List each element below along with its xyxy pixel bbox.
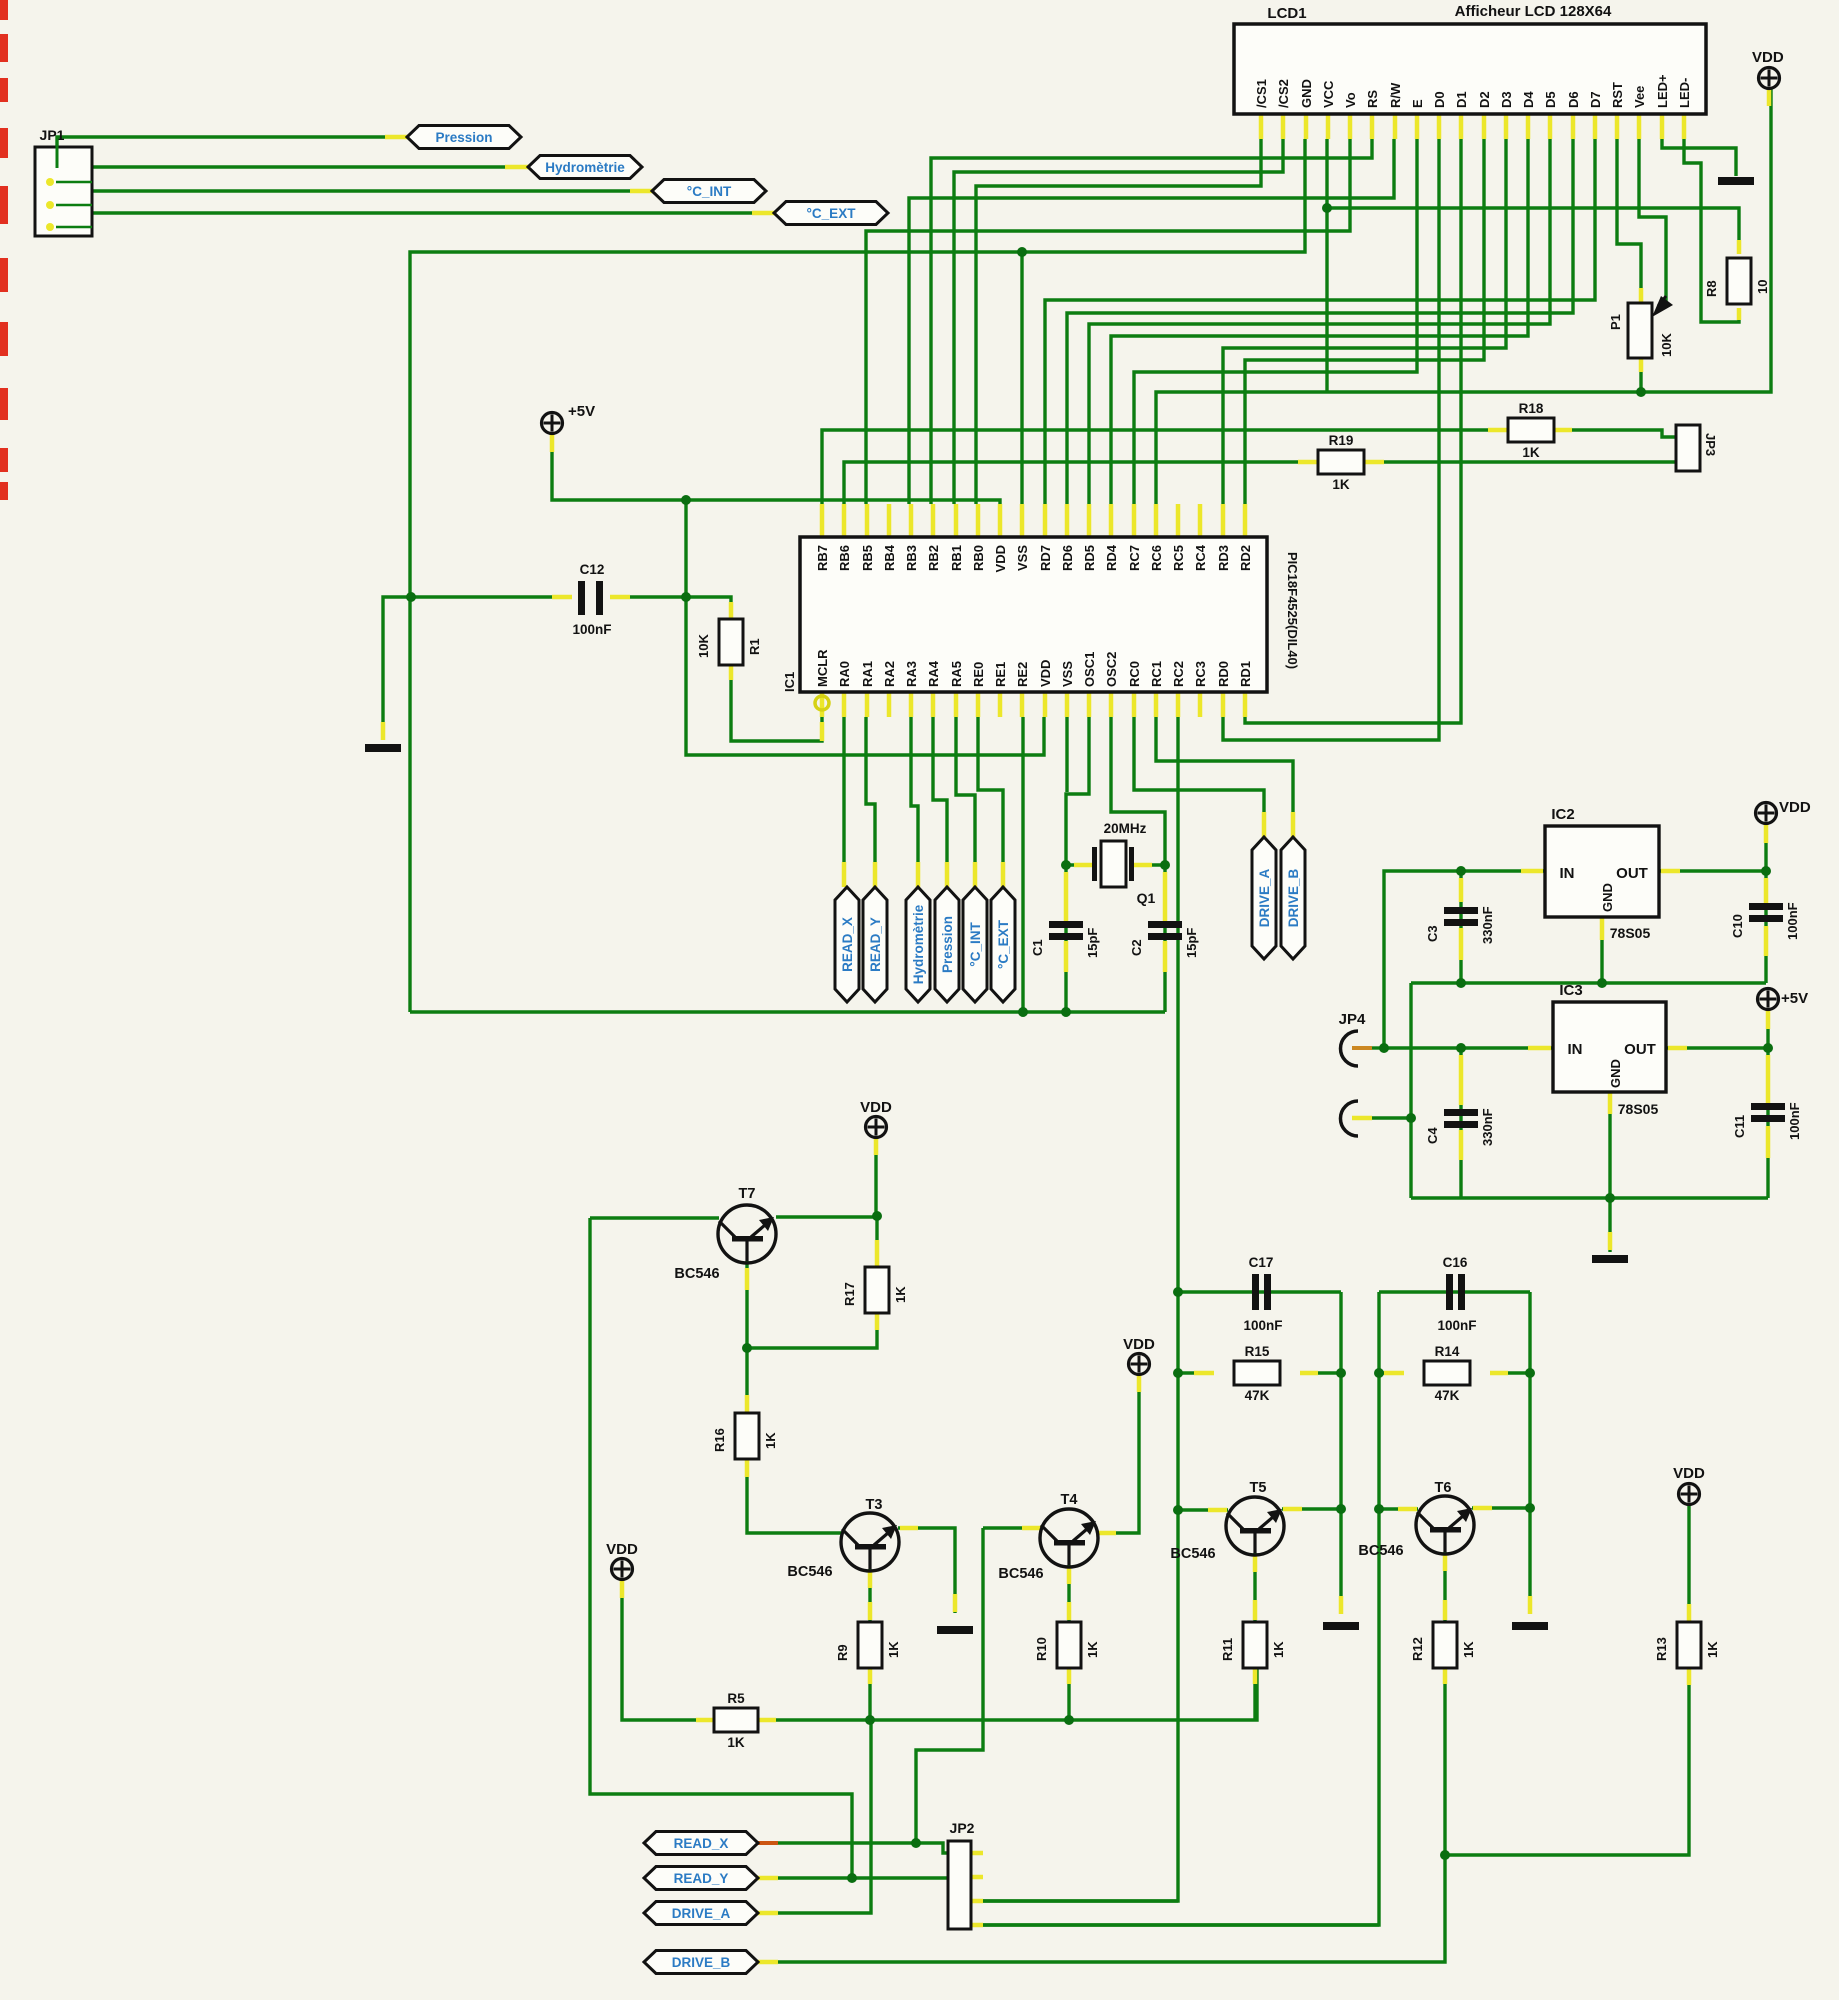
svg-text:R13: R13 bbox=[1654, 1637, 1669, 1661]
svg-text:OSC1: OSC1 bbox=[1082, 652, 1097, 687]
svg-text:OUT: OUT bbox=[1616, 865, 1648, 882]
svg-text:RD3: RD3 bbox=[1216, 545, 1231, 571]
svg-text:R15: R15 bbox=[1245, 1344, 1270, 1359]
svg-text:100nF: 100nF bbox=[572, 622, 611, 637]
svg-text:JP2: JP2 bbox=[950, 1820, 975, 1836]
svg-text:°C_EXT: °C_EXT bbox=[996, 919, 1011, 969]
svg-text:RC3: RC3 bbox=[1193, 661, 1208, 687]
svg-text:R10: R10 bbox=[1034, 1637, 1049, 1661]
svg-text:R16: R16 bbox=[712, 1428, 727, 1452]
svg-text:C3: C3 bbox=[1425, 925, 1440, 942]
svg-text:R19: R19 bbox=[1329, 433, 1354, 448]
svg-text:RD7: RD7 bbox=[1038, 545, 1053, 571]
svg-text:READ_X: READ_X bbox=[840, 917, 855, 972]
svg-text:MCLR: MCLR bbox=[815, 649, 830, 687]
svg-text:RB1: RB1 bbox=[949, 545, 964, 571]
svg-text:READ_Y: READ_Y bbox=[674, 1871, 729, 1886]
svg-text:15pF: 15pF bbox=[1085, 928, 1100, 958]
svg-text:D3: D3 bbox=[1499, 91, 1514, 108]
svg-text:47K: 47K bbox=[1245, 1388, 1270, 1403]
svg-text:RC4: RC4 bbox=[1193, 544, 1208, 571]
svg-text:R11: R11 bbox=[1220, 1638, 1235, 1661]
svg-text:1K: 1K bbox=[763, 1432, 778, 1449]
svg-text:RE1: RE1 bbox=[993, 662, 1008, 687]
svg-text:1K: 1K bbox=[727, 1735, 745, 1750]
svg-text:RB5: RB5 bbox=[860, 545, 875, 571]
svg-text:T3: T3 bbox=[866, 1497, 883, 1513]
svg-text:°C_EXT: °C_EXT bbox=[807, 206, 857, 221]
svg-text:RD5: RD5 bbox=[1082, 545, 1097, 571]
svg-text:10: 10 bbox=[1755, 280, 1770, 294]
svg-text:OUT: OUT bbox=[1624, 1041, 1656, 1058]
svg-text:DRIVE_B: DRIVE_B bbox=[672, 1955, 731, 1970]
svg-text:GND: GND bbox=[1600, 883, 1615, 912]
svg-text:C10: C10 bbox=[1730, 914, 1745, 938]
svg-text:20MHz: 20MHz bbox=[1104, 821, 1147, 836]
svg-text:VDD: VDD bbox=[1038, 660, 1053, 687]
svg-text:GND: GND bbox=[1608, 1059, 1623, 1088]
svg-text:T5: T5 bbox=[1250, 1480, 1267, 1496]
svg-text:DRIVE_A: DRIVE_A bbox=[1257, 868, 1272, 927]
svg-text:IN: IN bbox=[1560, 865, 1575, 882]
svg-text:RA0: RA0 bbox=[837, 661, 852, 687]
svg-text:R5: R5 bbox=[727, 1691, 745, 1706]
svg-text:RE0: RE0 bbox=[971, 662, 986, 687]
svg-text:Pression: Pression bbox=[940, 916, 955, 973]
svg-text:C1: C1 bbox=[1030, 939, 1045, 956]
svg-text:VDD: VDD bbox=[860, 1099, 892, 1116]
svg-text:D6: D6 bbox=[1566, 91, 1581, 108]
svg-text:RD1: RD1 bbox=[1238, 661, 1253, 687]
svg-text:R17: R17 bbox=[842, 1282, 857, 1306]
svg-text:JP1: JP1 bbox=[40, 127, 65, 143]
svg-text:D1: D1 bbox=[1454, 91, 1469, 108]
svg-text:RA3: RA3 bbox=[904, 661, 919, 687]
svg-text:RB0: RB0 bbox=[971, 545, 986, 571]
svg-text:47K: 47K bbox=[1435, 1388, 1460, 1403]
svg-text:DRIVE_B: DRIVE_B bbox=[1286, 868, 1301, 927]
svg-text:VSS: VSS bbox=[1015, 545, 1030, 571]
svg-text:LED-: LED- bbox=[1677, 78, 1692, 108]
svg-text:R14: R14 bbox=[1435, 1344, 1460, 1359]
svg-text:T7: T7 bbox=[739, 1186, 756, 1202]
svg-text:P1: P1 bbox=[1608, 314, 1623, 330]
svg-text:R/W: R/W bbox=[1388, 82, 1403, 108]
svg-text:RC5: RC5 bbox=[1171, 545, 1186, 571]
svg-text:LCD1: LCD1 bbox=[1267, 5, 1306, 22]
svg-text:RB2: RB2 bbox=[926, 545, 941, 571]
svg-text:Q1: Q1 bbox=[1137, 890, 1156, 906]
svg-text:BC546: BC546 bbox=[674, 1266, 719, 1282]
svg-text:Vo: Vo bbox=[1343, 92, 1358, 108]
svg-text:RD0: RD0 bbox=[1216, 661, 1231, 687]
svg-text:1K: 1K bbox=[1705, 1641, 1720, 1658]
svg-text:BC546: BC546 bbox=[1170, 1546, 1215, 1562]
svg-text:C12: C12 bbox=[580, 562, 605, 577]
svg-text:RA4: RA4 bbox=[926, 660, 941, 687]
svg-text:/CS2: /CS2 bbox=[1276, 79, 1291, 108]
svg-text:PIC18F4525(DIL40): PIC18F4525(DIL40) bbox=[1285, 552, 1300, 669]
svg-text:BC546: BC546 bbox=[1358, 1543, 1403, 1559]
svg-text:IC3: IC3 bbox=[1559, 982, 1582, 999]
svg-text:BC546: BC546 bbox=[998, 1566, 1043, 1582]
svg-text:R9: R9 bbox=[835, 1644, 850, 1661]
svg-text:R12: R12 bbox=[1410, 1637, 1425, 1661]
svg-text:VDD: VDD bbox=[1673, 1465, 1705, 1482]
svg-text:RB7: RB7 bbox=[815, 545, 830, 571]
svg-text:100nF: 100nF bbox=[1243, 1318, 1282, 1333]
svg-text:READ_X: READ_X bbox=[674, 1836, 729, 1851]
svg-text:OSC2: OSC2 bbox=[1104, 652, 1119, 687]
svg-text:1K: 1K bbox=[893, 1286, 908, 1303]
svg-text:RC6: RC6 bbox=[1149, 545, 1164, 571]
svg-text:RC2: RC2 bbox=[1171, 661, 1186, 687]
svg-text:D5: D5 bbox=[1543, 91, 1558, 108]
svg-text:100nF: 100nF bbox=[1437, 1318, 1476, 1333]
svg-text:10K: 10K bbox=[1659, 333, 1674, 357]
svg-text:100nF: 100nF bbox=[1785, 902, 1800, 940]
svg-text:VDD: VDD bbox=[606, 1541, 638, 1558]
svg-text:1K: 1K bbox=[1271, 1641, 1286, 1658]
svg-text:15pF: 15pF bbox=[1184, 928, 1199, 958]
svg-text:VCC: VCC bbox=[1321, 80, 1336, 108]
svg-text:T6: T6 bbox=[1435, 1480, 1452, 1496]
svg-text:°C_INT: °C_INT bbox=[968, 922, 983, 967]
svg-text:100nF: 100nF bbox=[1787, 1102, 1802, 1140]
svg-text:LED+: LED+ bbox=[1655, 74, 1670, 108]
svg-text:330nF: 330nF bbox=[1480, 906, 1495, 944]
svg-text:Pression: Pression bbox=[435, 130, 492, 145]
svg-text:VSS: VSS bbox=[1060, 661, 1075, 687]
svg-text:JP3: JP3 bbox=[1703, 433, 1718, 456]
svg-text:/CS1: /CS1 bbox=[1254, 79, 1269, 108]
svg-text:RE2: RE2 bbox=[1015, 662, 1030, 687]
svg-text:Hydromètrie: Hydromètrie bbox=[911, 904, 926, 984]
svg-text:BC546: BC546 bbox=[787, 1564, 832, 1580]
svg-text:RD6: RD6 bbox=[1060, 545, 1075, 571]
svg-text:RA5: RA5 bbox=[949, 661, 964, 687]
svg-text:R18: R18 bbox=[1519, 401, 1544, 416]
svg-text:VDD: VDD bbox=[1779, 799, 1811, 816]
svg-text:RA1: RA1 bbox=[860, 661, 875, 687]
svg-text:D2: D2 bbox=[1477, 91, 1492, 108]
svg-text:R1: R1 bbox=[747, 638, 762, 655]
svg-text:Vee: Vee bbox=[1632, 86, 1647, 108]
svg-text:78S05: 78S05 bbox=[1610, 925, 1651, 941]
svg-text:VDD: VDD bbox=[993, 545, 1008, 572]
svg-text:D7: D7 bbox=[1588, 91, 1603, 108]
svg-text:C16: C16 bbox=[1443, 1255, 1468, 1270]
svg-text:IC1: IC1 bbox=[782, 672, 797, 692]
svg-text:RD4: RD4 bbox=[1104, 544, 1119, 571]
svg-text:°C_INT: °C_INT bbox=[687, 184, 732, 199]
svg-text:RC0: RC0 bbox=[1127, 661, 1142, 687]
svg-text:RB6: RB6 bbox=[837, 545, 852, 571]
svg-text:RST: RST bbox=[1610, 82, 1625, 108]
svg-text:+5V: +5V bbox=[568, 403, 595, 420]
svg-text:+5V: +5V bbox=[1781, 990, 1808, 1007]
svg-text:Afficheur LCD 128X64: Afficheur LCD 128X64 bbox=[1455, 3, 1612, 20]
svg-text:GND: GND bbox=[1299, 79, 1314, 108]
svg-text:JP4: JP4 bbox=[1339, 1011, 1366, 1028]
svg-text:1K: 1K bbox=[1085, 1641, 1100, 1658]
svg-text:1K: 1K bbox=[886, 1641, 901, 1658]
svg-text:C17: C17 bbox=[1249, 1255, 1274, 1270]
svg-text:IC2: IC2 bbox=[1551, 806, 1574, 823]
svg-text:RB4: RB4 bbox=[882, 544, 897, 571]
svg-text:RD2: RD2 bbox=[1238, 545, 1253, 571]
svg-text:D4: D4 bbox=[1521, 91, 1536, 108]
svg-text:R8: R8 bbox=[1704, 280, 1719, 297]
svg-text:IN: IN bbox=[1568, 1041, 1583, 1058]
svg-text:VDD: VDD bbox=[1752, 49, 1784, 66]
svg-text:T4: T4 bbox=[1061, 1492, 1078, 1508]
svg-text:10K: 10K bbox=[696, 634, 711, 658]
svg-text:C11: C11 bbox=[1732, 1115, 1747, 1138]
svg-text:READ_Y: READ_Y bbox=[868, 917, 883, 972]
svg-text:RA2: RA2 bbox=[882, 661, 897, 687]
svg-text:1K: 1K bbox=[1522, 445, 1540, 460]
svg-text:VDD: VDD bbox=[1123, 1336, 1155, 1353]
svg-text:RB3: RB3 bbox=[904, 545, 919, 571]
svg-text:1K: 1K bbox=[1461, 1641, 1476, 1658]
svg-text:1K: 1K bbox=[1332, 477, 1350, 492]
svg-text:DRIVE_A: DRIVE_A bbox=[672, 1906, 731, 1921]
svg-text:RC7: RC7 bbox=[1127, 545, 1142, 571]
svg-text:RC1: RC1 bbox=[1149, 661, 1164, 687]
svg-text:Hydromètrie: Hydromètrie bbox=[545, 160, 625, 175]
svg-text:C2: C2 bbox=[1129, 939, 1144, 956]
svg-text:RS: RS bbox=[1365, 90, 1380, 108]
svg-text:78S05: 78S05 bbox=[1618, 1101, 1659, 1117]
svg-text:C4: C4 bbox=[1425, 1127, 1440, 1144]
svg-text:330nF: 330nF bbox=[1480, 1108, 1495, 1146]
svg-text:D0: D0 bbox=[1432, 91, 1447, 108]
svg-text:E: E bbox=[1410, 99, 1425, 108]
